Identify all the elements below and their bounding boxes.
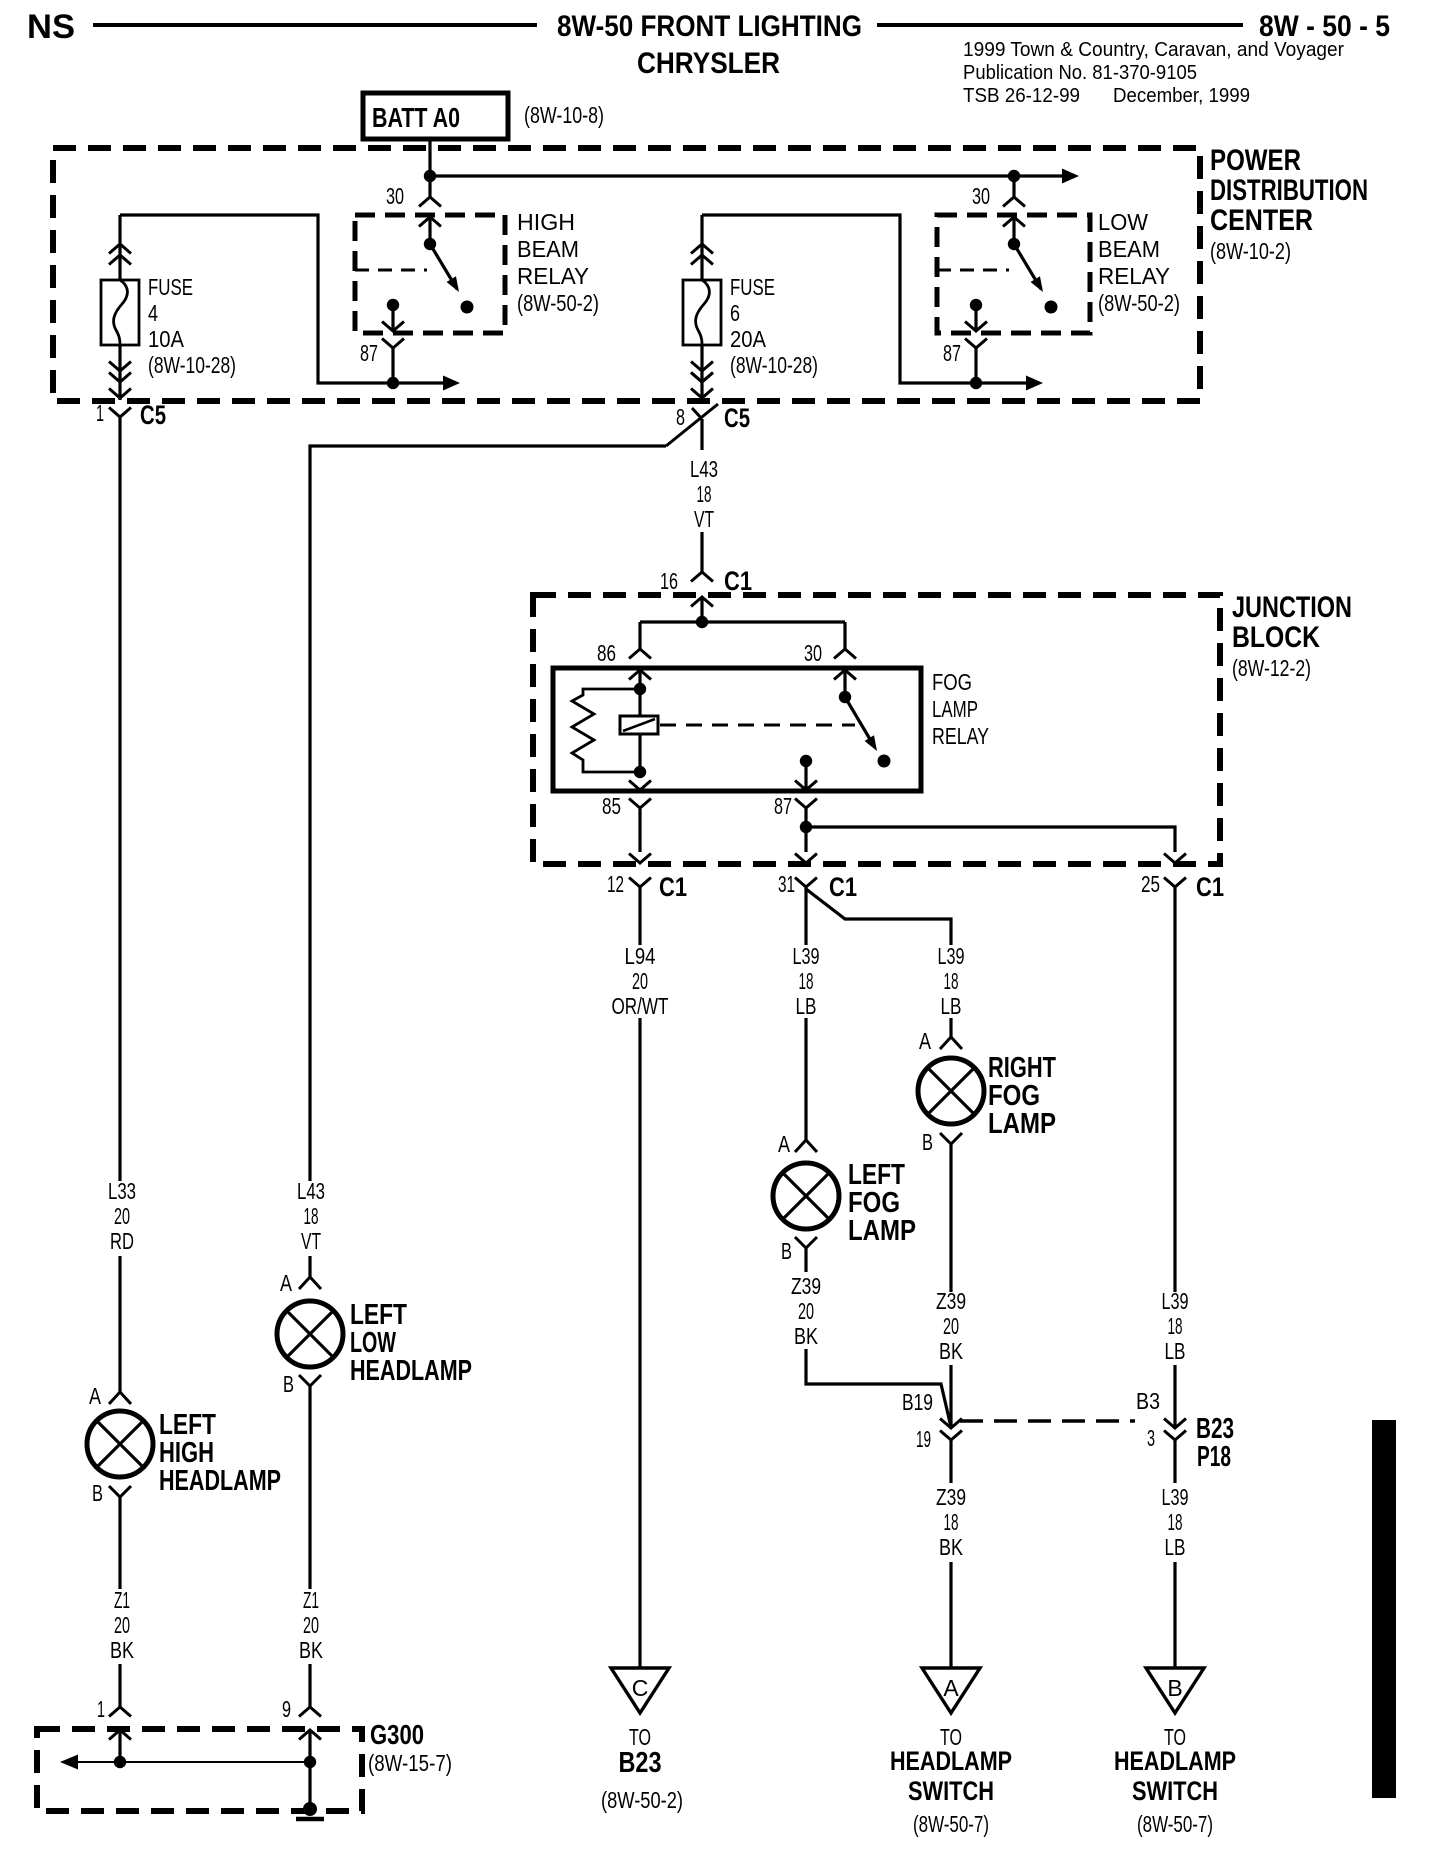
node junction above fog lamp relay: [696, 616, 708, 628]
fog relay coil top node: [634, 683, 646, 695]
wire to right fog lamp A: [949, 1018, 952, 1037]
off-page triangle A: [922, 1668, 980, 1713]
svg-text:Z39: Z39: [791, 1273, 821, 1299]
node ground bus pin 1: [114, 1756, 126, 1768]
connector pin 87 fog relay chevron exit: [795, 781, 817, 791]
svg-text:25: 25: [1141, 871, 1160, 897]
svg-text:8: 8: [676, 404, 685, 430]
svg-text:30: 30: [386, 183, 404, 209]
svg-text:HEADLAMP: HEADLAMP: [350, 1355, 472, 1387]
wire down to pin 30 fog relay: [843, 622, 846, 649]
svg-text:LAMP: LAMP: [988, 1108, 1056, 1140]
svg-text:Z1: Z1: [114, 1587, 130, 1613]
high beam relay contact dot: [461, 301, 474, 314]
wire left low headlamp feed lower: [308, 1256, 311, 1277]
connector pin 85 fork: [629, 799, 651, 809]
connector C1 pin 12 fork: [629, 878, 651, 888]
svg-text:(8W-10-8): (8W-10-8): [524, 102, 604, 128]
connector C1 pin 12 chevron at block edge: [629, 854, 651, 864]
arrow bus continues right: [1062, 169, 1079, 184]
off-page triangle B: [1146, 1668, 1204, 1713]
svg-text:30: 30: [972, 183, 990, 209]
svg-text:L39: L39: [1162, 1288, 1189, 1314]
svg-text:BLOCK: BLOCK: [1232, 621, 1320, 654]
wire top bus to low beam relay: [430, 174, 1066, 177]
wire L94 down to triangle C: [638, 1018, 641, 1668]
wire C1-31 branch to right fog lamp: [806, 889, 951, 945]
connector pin 87 low beam relay exit: [965, 322, 987, 332]
svg-text:31: 31: [778, 871, 795, 897]
left high headlamp bulb: [87, 1411, 153, 1477]
svg-text:(8W-10-28): (8W-10-28): [730, 352, 818, 378]
svg-text:C5: C5: [724, 403, 750, 433]
svg-text:C1: C1: [829, 872, 857, 902]
svg-text:B19: B19: [902, 1389, 933, 1415]
svg-text:A: A: [89, 1383, 102, 1409]
high beam relay dashed box: [355, 215, 505, 333]
svg-text:B: B: [283, 1371, 294, 1397]
high beam relay coil dashed line: [355, 269, 427, 272]
svg-text:4: 4: [148, 300, 158, 326]
svg-text:(8W-12-2): (8W-12-2): [1232, 655, 1311, 681]
binder mark black bar: [1372, 1420, 1396, 1798]
node ground bus pin 9: [304, 1756, 316, 1768]
svg-text:A: A: [943, 1675, 959, 1701]
wire L43 into junction block: [700, 532, 703, 572]
connector pin 86 chevron inside relay: [629, 670, 651, 680]
svg-text:BK: BK: [110, 1637, 135, 1663]
svg-text:1: 1: [96, 400, 104, 426]
wire fuse 4 bottom: [118, 345, 121, 400]
wire left low B down: [308, 1386, 311, 1589]
in-line connector 19 of B23: [940, 1419, 962, 1429]
svg-text:87: 87: [774, 793, 792, 819]
connector C5 pin 8 chevrons at PDC edge: [691, 373, 713, 383]
svg-text:B23: B23: [619, 1747, 662, 1779]
header rule left: [93, 23, 537, 27]
connector C5 pin 8 fork with branch: [692, 408, 702, 419]
svg-text:18: 18: [944, 1509, 959, 1535]
svg-text:B3: B3: [1136, 1388, 1160, 1414]
connector C1 pin 25 chevron at block edge: [1164, 854, 1186, 864]
svg-text:BK: BK: [794, 1323, 819, 1349]
connector A left fog lamp fork: [795, 1140, 817, 1152]
flow chevrons below fuse 4: [109, 362, 131, 372]
svg-text:RELAY: RELAY: [517, 263, 589, 289]
svg-text:(8W-50-7): (8W-50-7): [1137, 1811, 1213, 1837]
svg-text:LB: LB: [1165, 1534, 1186, 1560]
svg-text:NS: NS: [27, 8, 75, 46]
svg-text:RD: RD: [110, 1228, 134, 1254]
connector pin 30 high beam relay: [428, 176, 431, 197]
connector C5 pin 1 chevron at PDC edge: [109, 389, 131, 399]
svg-text:VT: VT: [694, 506, 714, 532]
wire to G300 pin 1: [118, 1664, 121, 1707]
high beam relay switch arm: [430, 244, 457, 289]
wire left fog to connector B19: [806, 1349, 951, 1427]
node bus junction at BATT wire: [424, 170, 436, 182]
arrow high beam 87 feed continues right: [393, 381, 446, 384]
svg-text:C5: C5: [140, 400, 166, 430]
wire low beam 87 to fuse 6: [702, 215, 976, 383]
svg-text:18: 18: [1168, 1313, 1183, 1339]
svg-text:POWER: POWER: [1210, 144, 1301, 177]
connector C1 pin 25 fork: [1164, 878, 1186, 888]
svg-text:L43: L43: [690, 456, 718, 482]
high beam relay common node 30: [424, 238, 436, 250]
connector A left low headlamp fork: [299, 1277, 321, 1289]
svg-text:10A: 10A: [148, 326, 185, 352]
svg-text:LAMP: LAMP: [932, 696, 978, 722]
low beam relay coil dashed line: [937, 269, 1009, 272]
wire split to relay pins 86 and 30: [640, 620, 845, 623]
svg-text:18: 18: [799, 968, 814, 994]
svg-text:6: 6: [730, 300, 740, 326]
wire right fog to connector B19: [949, 1365, 952, 1427]
connector A left high headlamp fork: [109, 1392, 131, 1404]
svg-text:L39: L39: [793, 943, 820, 969]
svg-text:86: 86: [597, 640, 616, 666]
svg-text:L39: L39: [938, 943, 965, 969]
svg-text:87: 87: [360, 340, 378, 366]
svg-text:BK: BK: [939, 1338, 964, 1364]
low beam relay common node 30: [1008, 238, 1020, 250]
wire high beam 87 to fuse 4: [120, 215, 393, 383]
power distribution center dashed box: [53, 148, 1200, 401]
svg-text:Publication No. 81-370-9105: Publication No. 81-370-9105: [963, 62, 1197, 84]
connector pin 85 chevron exit: [629, 781, 651, 791]
wire BATT A0 down to bus: [428, 139, 431, 176]
high beam relay pin 87 node: [387, 299, 399, 311]
flow chevrons above fuse 4: [109, 244, 131, 254]
svg-text:19: 19: [916, 1426, 931, 1452]
svg-text:20: 20: [114, 1612, 130, 1638]
fog relay coil winding: [638, 689, 641, 772]
svg-text:18: 18: [697, 481, 712, 507]
svg-text:B: B: [922, 1129, 933, 1155]
svg-text:1: 1: [97, 1696, 105, 1722]
connector pin 86 fork: [629, 649, 651, 659]
connector G300 pin 1 fork: [109, 1707, 131, 1717]
svg-text:16: 16: [660, 568, 678, 594]
connector pin 30 fork (fog relay): [834, 649, 856, 659]
svg-text:CHRYSLER: CHRYSLER: [637, 47, 780, 80]
fog relay switch arm: [845, 697, 874, 746]
connector C5 pin 1 fork: [109, 408, 131, 418]
connector C1 pin 16 fork: [691, 572, 713, 582]
svg-text:B: B: [92, 1480, 103, 1506]
ground G300 dashed box: [37, 1729, 362, 1811]
svg-text:SWITCH: SWITCH: [1132, 1776, 1218, 1806]
connector B left high headlamp fork: [109, 1486, 131, 1497]
svg-text:20: 20: [303, 1612, 319, 1638]
svg-text:A: A: [919, 1028, 932, 1054]
node junction pin87 high beam: [387, 377, 399, 389]
svg-text:LOW: LOW: [1098, 209, 1148, 235]
svg-text:BK: BK: [299, 1637, 324, 1663]
wire fuse 4 top: [118, 215, 121, 280]
fog lamp relay solid box: [553, 668, 921, 791]
svg-text:18: 18: [1168, 1509, 1183, 1535]
svg-text:RELAY: RELAY: [1098, 263, 1170, 289]
svg-text:L43: L43: [297, 1178, 325, 1204]
battery feed box BATT A0: [363, 93, 508, 139]
svg-text:FOG: FOG: [932, 669, 972, 695]
wire C1-31 down to left fog lamp: [804, 887, 807, 945]
svg-text:20: 20: [798, 1298, 814, 1324]
fuse F4 body: [101, 280, 139, 345]
svg-text:A: A: [778, 1131, 791, 1157]
svg-text:L94: L94: [625, 943, 656, 969]
svg-text:Z39: Z39: [936, 1288, 966, 1314]
svg-text:87: 87: [943, 340, 961, 366]
low beam relay pin 87 node: [970, 299, 982, 311]
wire fuse 6 bottom: [700, 345, 703, 400]
svg-text:85: 85: [602, 793, 621, 819]
off-page triangle C: [611, 1668, 669, 1713]
connector pin 30 chevron inside relay: [834, 670, 856, 680]
fog relay resistor: [572, 689, 640, 772]
fog relay switch contact dot: [878, 755, 891, 768]
svg-text:December, 1999: December, 1999: [1113, 85, 1250, 107]
svg-text:OR/WT: OR/WT: [612, 993, 669, 1019]
in-line connector 3 of B23: [1164, 1419, 1186, 1429]
connector pin 30 low beam relay: [1012, 176, 1015, 197]
connector B left fog lamp fork: [795, 1237, 817, 1248]
svg-text:HEADLAMP: HEADLAMP: [159, 1465, 281, 1497]
right fog lamp bulb: [918, 1058, 984, 1124]
svg-text:C1: C1: [659, 872, 687, 902]
svg-text:(8W-50-7): (8W-50-7): [913, 1811, 989, 1837]
fog relay coil bottom node: [634, 766, 646, 778]
wire C1-25 down: [1173, 887, 1176, 1292]
wire to left fog lamp A: [804, 1018, 807, 1140]
svg-text:(8W-10-28): (8W-10-28): [148, 352, 236, 378]
wire left high B down: [118, 1497, 121, 1589]
connector G300 pin 9 fork: [299, 1707, 321, 1717]
low beam relay dashed box: [937, 215, 1090, 333]
svg-text:BK: BK: [939, 1534, 964, 1560]
fog relay pin 87 node: [800, 755, 812, 767]
svg-text:LAMP: LAMP: [848, 1215, 916, 1247]
connector C1 pin 31 chevron at block edge: [795, 854, 817, 864]
svg-text:LB: LB: [941, 993, 962, 1019]
svg-text:LB: LB: [1165, 1338, 1186, 1364]
low beam relay contact dot: [1045, 301, 1058, 314]
svg-text:1999 Town & Country, Caravan,: 1999 Town & Country, Caravan, and Voyage…: [963, 39, 1344, 61]
wire right fog B down: [949, 1144, 952, 1292]
svg-text:DISTRIBUTION: DISTRIBUTION: [1210, 174, 1368, 207]
svg-text:CENTER: CENTER: [1210, 204, 1313, 237]
svg-text:BATT A0: BATT A0: [372, 102, 460, 133]
svg-text:12: 12: [607, 871, 624, 897]
svg-text:SWITCH: SWITCH: [908, 1776, 994, 1806]
wire 87 to C1 pin 25: [806, 827, 1175, 852]
svg-text:Z1: Z1: [303, 1587, 319, 1613]
svg-text:B: B: [1167, 1675, 1182, 1701]
svg-text:P18: P18: [1197, 1441, 1231, 1473]
svg-text:(8W-50-2): (8W-50-2): [517, 290, 599, 316]
svg-text:C1: C1: [724, 566, 752, 596]
svg-text:20: 20: [114, 1203, 130, 1229]
svg-text:(8W-15-7): (8W-15-7): [368, 1750, 452, 1776]
svg-text:G300: G300: [370, 1719, 424, 1750]
svg-text:FUSE: FUSE: [730, 274, 775, 300]
connector G300 pin 1 chevron inside: [109, 1730, 131, 1740]
svg-text:B: B: [781, 1238, 792, 1264]
svg-text:L33: L33: [108, 1178, 136, 1204]
svg-text:RELAY: RELAY: [932, 723, 989, 749]
fuse F6 body: [683, 280, 721, 345]
svg-text:JUNCTION: JUNCTION: [1232, 591, 1352, 624]
wire fuse 6 top: [700, 215, 703, 280]
svg-text:BEAM: BEAM: [517, 236, 579, 262]
node junction pin87 low beam: [970, 377, 982, 389]
connector C1 pin 31 fork: [795, 878, 817, 888]
svg-text:HEADLAMP: HEADLAMP: [890, 1746, 1012, 1776]
wire left fog B down: [804, 1248, 807, 1272]
svg-text:C1: C1: [1196, 872, 1224, 902]
connector pin 87 fog relay fork: [795, 799, 817, 809]
connector A right fog lamp fork: [940, 1037, 962, 1049]
svg-text:20: 20: [943, 1313, 959, 1339]
svg-text:20A: 20A: [730, 326, 767, 352]
wire to ground point: [308, 1762, 311, 1804]
svg-text:18: 18: [304, 1203, 319, 1229]
svg-text:20: 20: [632, 968, 648, 994]
header rule right: [877, 23, 1243, 27]
svg-text:(8W-10-2): (8W-10-2): [1210, 238, 1291, 264]
junction block dashed box: [533, 595, 1220, 864]
wire C1-25 to connector B3: [1173, 1365, 1176, 1427]
ground G300 symbol: [303, 1802, 317, 1816]
svg-text:C: C: [632, 1675, 649, 1701]
svg-text:18: 18: [944, 968, 959, 994]
svg-text:(8W-50-2): (8W-50-2): [601, 1787, 683, 1813]
fog relay switch common node: [839, 691, 851, 703]
svg-text:HIGH: HIGH: [517, 209, 575, 235]
svg-text:BEAM: BEAM: [1098, 236, 1160, 262]
svg-text:VT: VT: [301, 1228, 321, 1254]
wire down to pin 86: [638, 622, 641, 649]
svg-text:TSB 26-12-99: TSB 26-12-99: [963, 85, 1080, 107]
wire down to triangle A: [949, 1562, 952, 1668]
low beam relay switch arm: [1014, 244, 1041, 289]
svg-text:8W-50 FRONT LIGHTING: 8W-50 FRONT LIGHTING: [557, 10, 862, 43]
svg-text:Z39: Z39: [936, 1484, 966, 1510]
wire to G300 pin 9: [308, 1664, 311, 1707]
svg-text:(8W-50-2): (8W-50-2): [1098, 290, 1180, 316]
svg-text:30: 30: [804, 640, 822, 666]
node bus junction at low beam relay: [1008, 170, 1020, 182]
connector C1 pin 16 chevron inside junction block: [691, 597, 713, 607]
flow chevrons below fuse 6: [691, 362, 713, 372]
node fog relay 87 split: [800, 821, 812, 833]
fog relay coil actuation dashed line: [660, 724, 855, 727]
left low headlamp bulb: [277, 1301, 343, 1367]
svg-text:LB: LB: [796, 993, 817, 1019]
ground bus wire: [78, 1761, 311, 1763]
connector B right fog lamp fork: [940, 1133, 962, 1144]
connector pin 87 high beam relay exit: [382, 322, 404, 332]
left fog lamp bulb: [773, 1163, 839, 1229]
arrow ground bus continues left: [60, 1755, 78, 1770]
dashed connector line B23/P18: [960, 1419, 1135, 1422]
wire down to triangle B: [1173, 1562, 1176, 1668]
wire left high headlamp feed upper: [118, 430, 121, 1181]
arrow low beam 87 feed continues right: [976, 381, 1029, 384]
wire branch L43 to left low headlamp: [310, 446, 666, 1181]
svg-text:9: 9: [282, 1696, 291, 1722]
svg-text:3: 3: [1147, 1425, 1155, 1451]
wire left high headlamp feed lower: [118, 1256, 121, 1392]
svg-text:A: A: [280, 1270, 293, 1296]
wire 87 down to C1 pin 31: [804, 827, 807, 852]
connector G300 pin 9 chevron inside: [299, 1730, 321, 1740]
svg-text:HEADLAMP: HEADLAMP: [1114, 1746, 1236, 1776]
svg-text:FUSE: FUSE: [148, 274, 193, 300]
flow chevrons above fuse 6: [691, 244, 713, 254]
svg-text:L39: L39: [1162, 1484, 1189, 1510]
connector B left low headlamp fork: [299, 1375, 321, 1386]
